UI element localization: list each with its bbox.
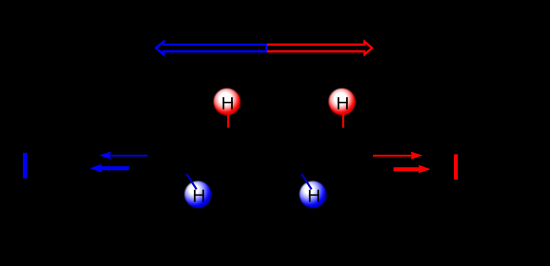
- wire: red bond from H2: [342, 112, 344, 128]
- wire: upper-left thin blue arrow: [109, 155, 148, 157]
- wire: blue bond to H4: [302, 174, 312, 189]
- wire: blue bond to H3: [187, 174, 197, 189]
- wire: lower-left thick blue arrow: [100, 166, 129, 170]
- node: blue vertical bar (left): [23, 153, 27, 179]
- wire: red bond from H1: [227, 112, 229, 128]
- wire: lower-right thick red arrow: [394, 167, 421, 171]
- node H2 red sphere: [329, 88, 356, 115]
- node: red vertical bar (right): [454, 154, 458, 179]
- node H1 red sphere: [214, 88, 241, 115]
- wire: upper-right thin red arrow: [373, 155, 413, 157]
- wire: hollow double-headed arrow, red right half: [267, 42, 372, 55]
- wire: hollow double-headed arrow, blue left half: [156, 42, 267, 55]
- node H4 blue sphere: [300, 181, 327, 208]
- node H3 blue sphere: [185, 181, 212, 208]
